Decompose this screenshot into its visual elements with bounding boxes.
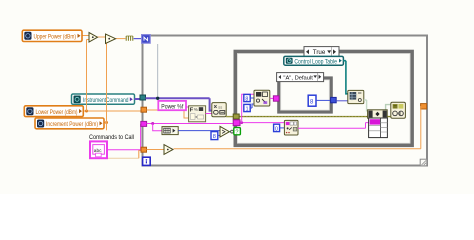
tunnel: error olive on case left xyxy=(233,114,239,119)
N count terminal xyxy=(142,35,151,44)
wire: error olive from subvi to case tunnel xyxy=(226,116,234,118)
inner case selector label "A", Default xyxy=(277,73,324,82)
wire: array size to compare xyxy=(178,130,220,132)
wire: increment inside loop to triangle xyxy=(147,149,165,151)
wire: faint tan line to i terminal xyxy=(99,157,139,159)
numeric display box inside inner case xyxy=(308,95,316,106)
wire: violet inside loop to subvi xyxy=(146,98,213,110)
svg-text:True: True xyxy=(313,49,326,56)
tunnel: instrument (violet/teal) on loop left xyxy=(140,95,146,100)
format into string node xyxy=(189,106,206,122)
case selector label True xyxy=(304,47,339,57)
tunnel: increment orange xyxy=(141,147,147,152)
svg-text:8: 8 xyxy=(245,96,248,102)
wire: pale green from table icon to merge node xyxy=(364,100,368,111)
clear errors icon xyxy=(391,102,406,118)
svg-text:Lower Power (dBm): Lower Power (dBm) xyxy=(36,109,78,116)
index array icon xyxy=(284,120,298,135)
svg-text:0: 0 xyxy=(275,126,278,132)
subvi write instrument xyxy=(212,103,226,117)
svg-text:Upper Power (dBm): Upper Power (dBm) xyxy=(34,34,77,41)
numeric constant feeding index icon xyxy=(274,124,280,132)
svg-text:Commands to Call: Commands to Call xyxy=(89,134,134,141)
array size node xyxy=(162,127,178,135)
wire: magenta inside loop xyxy=(147,123,234,125)
svg-text:ss: ss xyxy=(218,104,222,109)
string constant Power %f xyxy=(158,101,186,110)
junction dot magenta + branch to array size xyxy=(151,122,154,125)
svg-text:InstrumentCommand: InstrumentCommand xyxy=(83,97,129,104)
wire: orange under case to right tunnel xyxy=(174,106,421,149)
wire: increment branch up to divide second input xyxy=(106,41,108,123)
tunnel: magenta on inner case left xyxy=(273,96,279,101)
divide triangle xyxy=(106,34,116,44)
resize handle bottom-right of for-loop xyxy=(420,159,427,166)
wire: lower-power branch up to subtract second input xyxy=(87,40,90,112)
wire: InstrumentCommand to loop tunnel (violet) xyxy=(135,98,141,100)
junction dot + vertical branch to search icon xyxy=(240,121,243,124)
control Upper Power (dBm) xyxy=(22,30,82,41)
wire: pale green from merge node to clear icon xyxy=(386,105,391,111)
wire: box to inner case tunnel xyxy=(316,99,331,101)
wire: I32 conversion to N terminal xyxy=(134,38,142,40)
numeric constant near compare xyxy=(211,132,218,141)
for-loop border xyxy=(143,36,428,166)
merge/select node xyxy=(368,110,388,118)
wire: compare to selector xyxy=(229,131,230,133)
table read icon xyxy=(348,90,364,103)
control Increment Power (dBm) xyxy=(35,118,104,129)
wire: Lower Power to loop tunnel xyxy=(83,110,141,112)
wire: format out to subvi xyxy=(206,113,212,115)
wire: control loop table to table-read icon (teal) xyxy=(343,61,348,94)
control Control Loop Table xyxy=(284,56,344,65)
svg-text:8: 8 xyxy=(213,134,216,140)
junction dot increment xyxy=(105,121,108,124)
to-I32 conversion node xyxy=(126,36,133,41)
tunnel: orange output on loop right xyxy=(421,104,427,109)
wires: constants to search icon xyxy=(250,98,254,108)
wire overlay: upper-power branch vertical crossing control xyxy=(86,92,88,111)
wire: Power %f to format node xyxy=(186,106,189,108)
wire: Increment Power out xyxy=(104,123,107,131)
junction dot lower power xyxy=(85,110,88,113)
selector terminal [?] xyxy=(231,130,234,133)
svg-text:1: 1 xyxy=(246,106,249,112)
control Lower Power (dBm) xyxy=(24,106,83,117)
constant array Commands to Call xyxy=(90,141,107,158)
svg-text:%: % xyxy=(194,107,198,112)
wire: tunnel to table-read icon xyxy=(336,100,348,102)
wire: commands constant to loop tunnel (magenta) xyxy=(107,124,141,150)
tunnel: magenta on case left xyxy=(233,120,240,126)
compare triangle xyxy=(220,126,229,137)
wire: Upper Power to subtract xyxy=(82,35,89,37)
wire: constant to index icon xyxy=(280,127,285,129)
table/listbox element xyxy=(369,118,388,138)
tunnel: commands magenta xyxy=(141,121,147,126)
wire: error olive inside case xyxy=(238,116,391,118)
wire: subtract to divide xyxy=(98,36,106,38)
wire: constant to compare xyxy=(218,134,220,136)
wire: orange inside loop to format node xyxy=(147,110,189,118)
control InstrumentCommand xyxy=(72,94,135,104)
i iteration terminal xyxy=(143,157,151,165)
svg-text:Increment Power (dBm): Increment Power (dBm) xyxy=(46,121,98,128)
wire: index icon out to table xyxy=(298,123,370,129)
subtract triangle xyxy=(89,33,98,43)
conversion triangle inside loop xyxy=(164,145,173,155)
numeric constants feeding search icon xyxy=(244,94,250,102)
svg-text:"A", Default: "A", Default xyxy=(283,76,313,82)
tunnel: lower power orange xyxy=(141,107,147,112)
svg-text:?: ? xyxy=(235,129,238,135)
faint vertical line and junction on violet wire xyxy=(157,44,159,97)
case structure outer border xyxy=(235,52,412,146)
wire: divide to I32 conversion xyxy=(116,38,126,40)
inner case structure border xyxy=(279,78,331,112)
wire: magenta inside case to index icon xyxy=(240,122,284,124)
svg-text:Control Loop Table: Control Loop Table xyxy=(294,58,337,65)
wire overlay: increment branch vertical crossing control xyxy=(106,92,108,123)
search/match icon xyxy=(254,90,270,106)
svg-text:Power %f: Power %f xyxy=(161,103,183,110)
tunnel: blue on inner case right xyxy=(331,97,337,102)
wire: search icon out to inner case tunnel xyxy=(270,97,274,99)
